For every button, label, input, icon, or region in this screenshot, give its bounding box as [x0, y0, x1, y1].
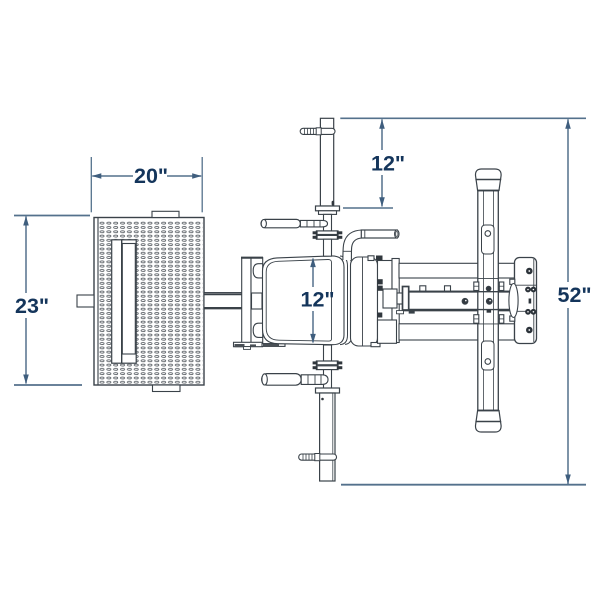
- svg-text:12": 12": [301, 288, 335, 312]
- svg-text:23": 23": [15, 294, 49, 318]
- svg-text:20": 20": [134, 164, 168, 188]
- svg-text:52": 52": [558, 283, 592, 307]
- svg-text:12": 12": [371, 152, 405, 176]
